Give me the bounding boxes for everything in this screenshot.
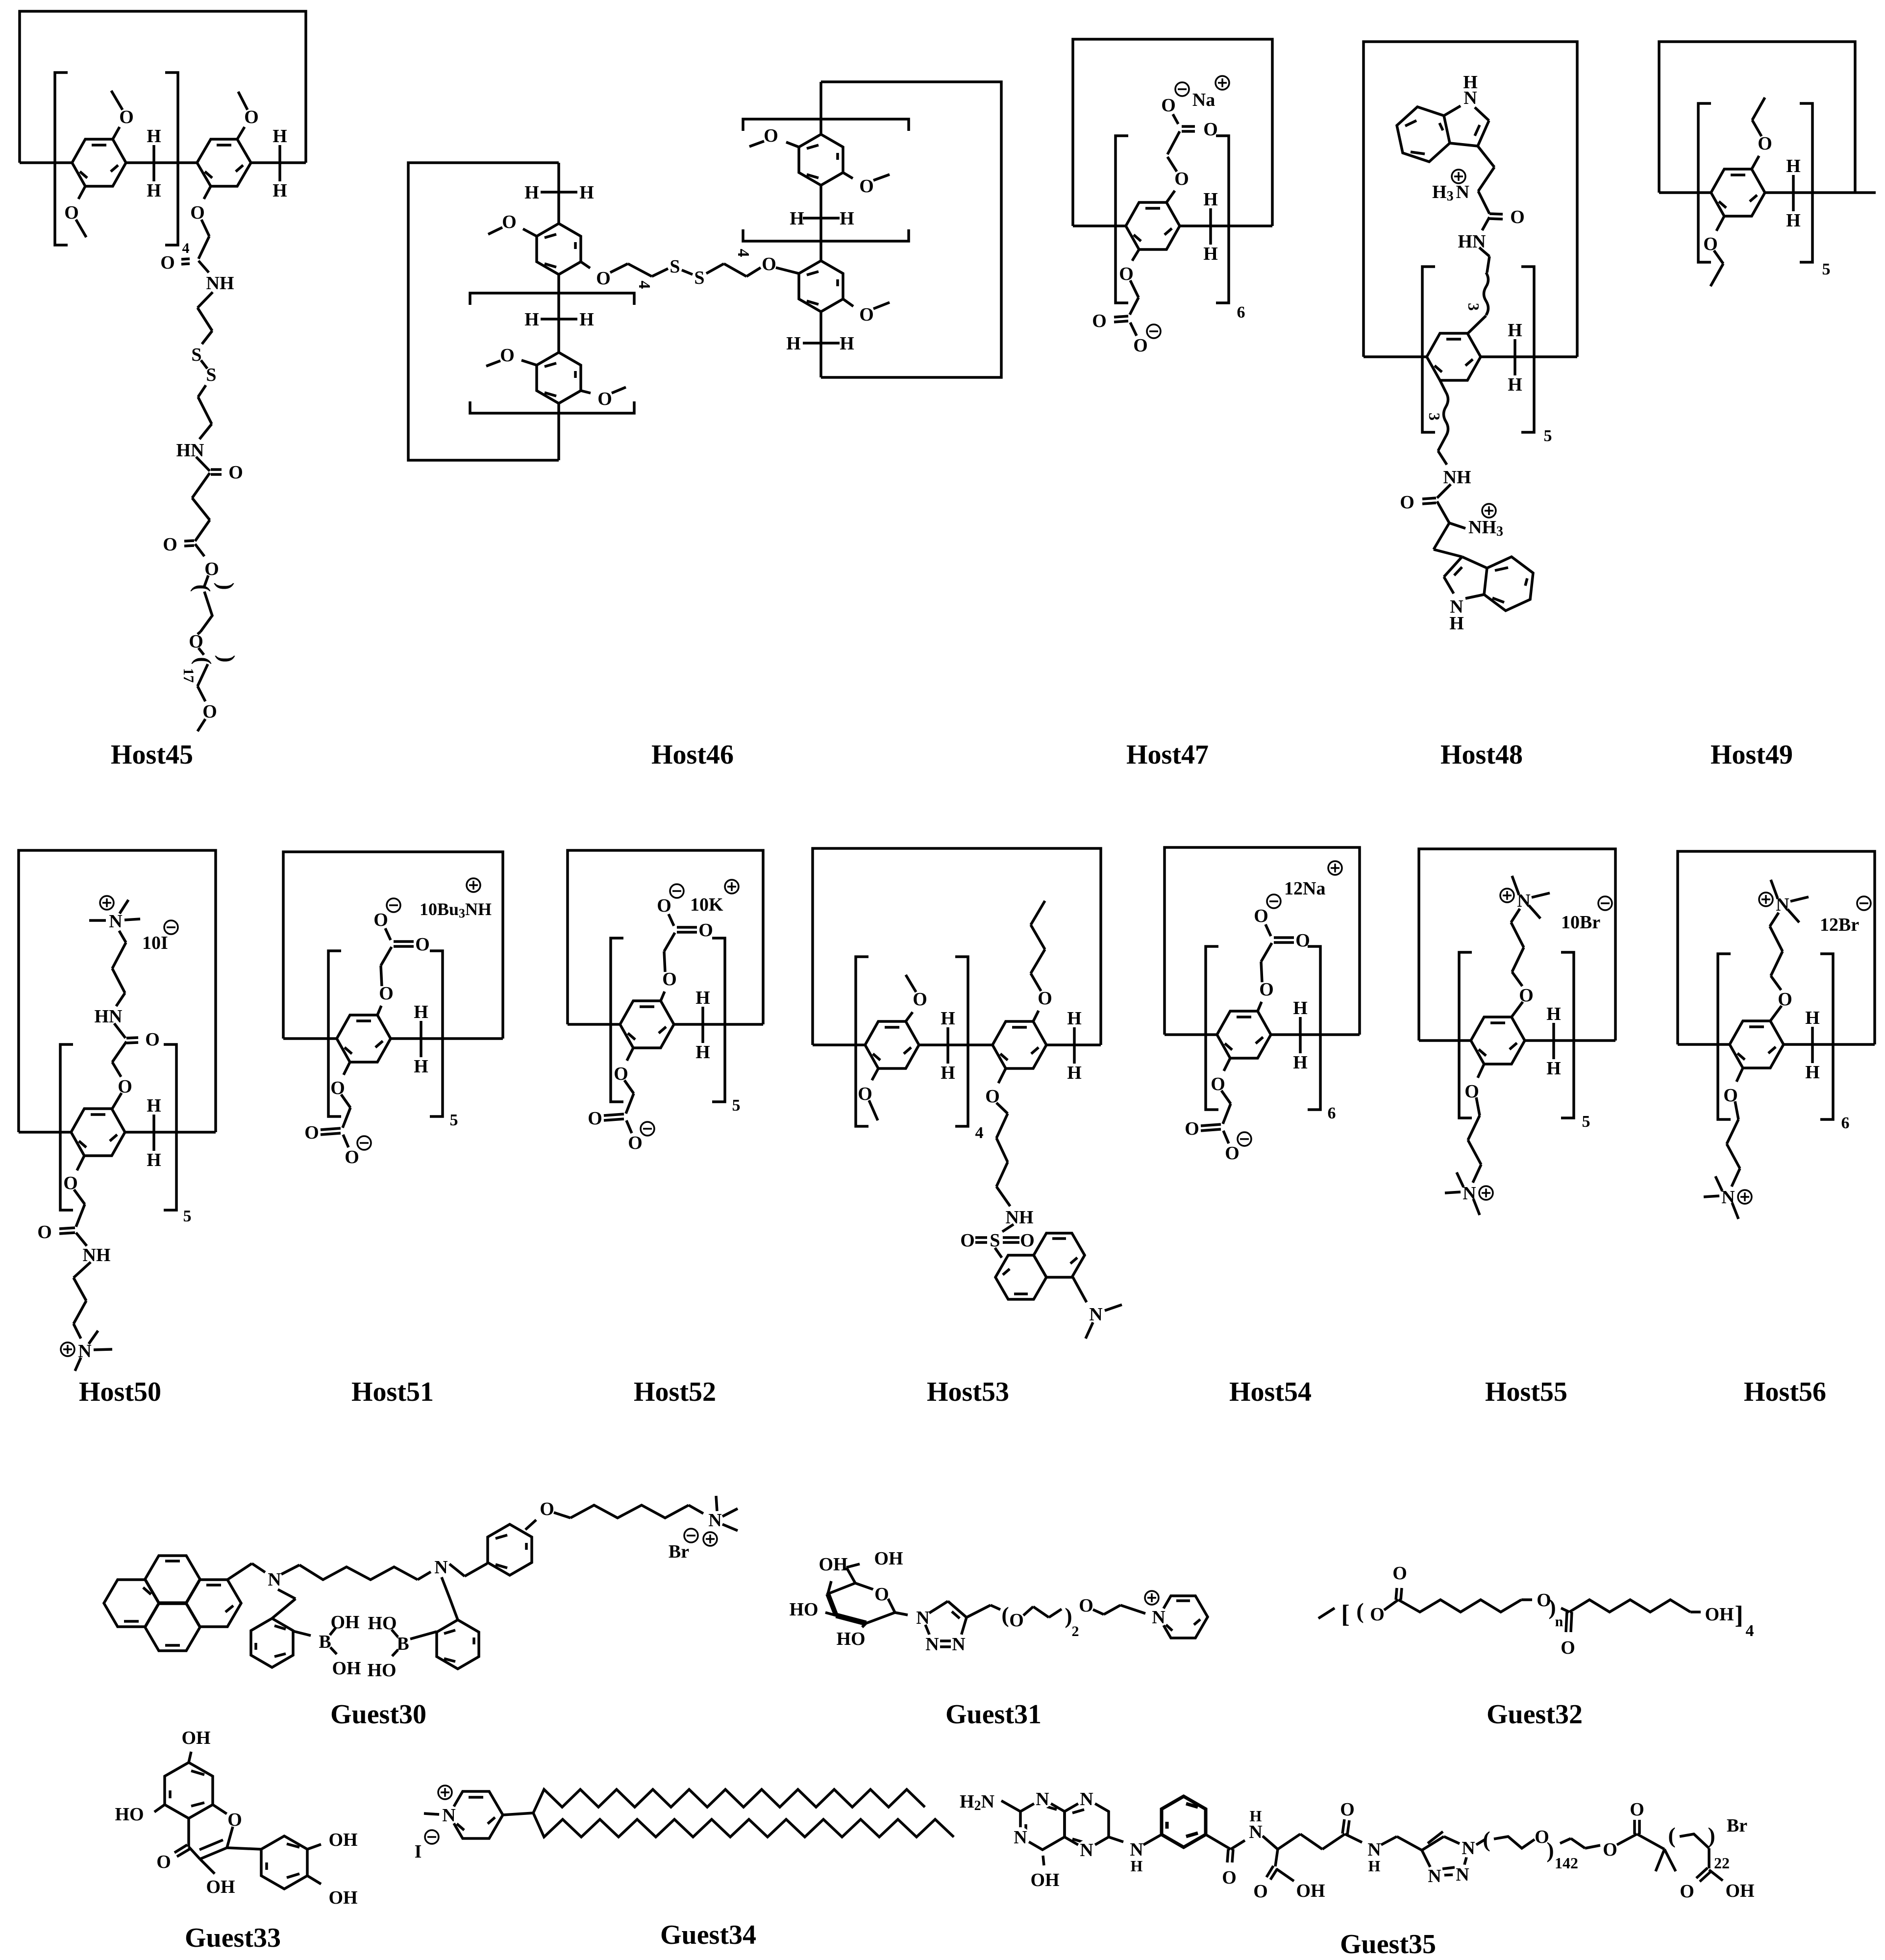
Guest35 H2N bbox=[960, 1791, 1020, 1813]
Host54 bottom carboxylate arm bbox=[1185, 1058, 1251, 1164]
Host45 repeat bracket bbox=[55, 73, 190, 256]
svg-text:Host47: Host47 bbox=[1126, 740, 1209, 770]
Host45 PEG chain bbox=[180, 575, 240, 731]
Guest32 second ester bbox=[1561, 1600, 1701, 1658]
svg-text:5: 5 bbox=[1582, 1113, 1590, 1131]
Host46 right brackets bbox=[734, 119, 909, 257]
svg-text:Guest32: Guest32 bbox=[1487, 1699, 1583, 1730]
svg-text:H: H bbox=[147, 126, 161, 147]
Host46 structure group bbox=[408, 82, 1001, 770]
Host54 box bbox=[1165, 847, 1360, 1035]
svg-text:5: 5 bbox=[1822, 260, 1831, 278]
svg-text:H: H bbox=[1293, 1052, 1308, 1073]
Guest34 upper docosyl chain bbox=[533, 1789, 925, 1813]
Host45 macrocycle box bbox=[20, 11, 306, 163]
svg-text:H: H bbox=[1250, 1807, 1262, 1825]
Host52 box bbox=[568, 850, 763, 1024]
Host47 top carboxylate arm bbox=[1161, 76, 1229, 202]
svg-text:O: O bbox=[1603, 1839, 1617, 1860]
svg-text:S: S bbox=[191, 345, 201, 365]
Host53 equator wire bbox=[813, 1043, 1101, 1046]
svg-text:H: H bbox=[1508, 374, 1522, 395]
Host48 bottom chain bbox=[1400, 436, 1503, 557]
svg-text:O: O bbox=[764, 125, 778, 146]
Host54 benzene ring bbox=[1217, 1011, 1271, 1058]
svg-text:12Na: 12Na bbox=[1284, 878, 1325, 899]
svg-text:10K: 10K bbox=[690, 894, 723, 915]
svg-text:4: 4 bbox=[975, 1124, 984, 1142]
svg-text:H: H bbox=[1508, 320, 1522, 341]
svg-text:O: O bbox=[345, 1147, 359, 1167]
svg-text:OH: OH bbox=[328, 1830, 357, 1850]
svg-text:(: ( bbox=[191, 657, 216, 664]
svg-text:O: O bbox=[1174, 169, 1189, 189]
svg-text:N: N bbox=[1428, 1866, 1441, 1886]
Host46 right bridge 1 bbox=[790, 208, 854, 229]
Host50 box bbox=[19, 850, 216, 1132]
svg-text:H: H bbox=[695, 1042, 710, 1063]
Guest30 benzyl 2 bbox=[437, 1577, 479, 1669]
Host51 top carboxylate arm bbox=[373, 878, 492, 1015]
Guest35 arylamine NH bbox=[1109, 1835, 1162, 1875]
Host50 top chain bbox=[95, 931, 160, 1109]
Host45 ring2 OMe top bbox=[237, 92, 259, 139]
svg-text:O: O bbox=[859, 304, 874, 325]
svg-text:H: H bbox=[695, 988, 710, 1008]
svg-text:H: H bbox=[1786, 210, 1801, 231]
Host47 structure group bbox=[1073, 39, 1272, 770]
Host55 brackets bbox=[1459, 952, 1590, 1131]
svg-text:N: N bbox=[1152, 1607, 1165, 1628]
svg-text:OH: OH bbox=[874, 1548, 903, 1569]
svg-text:N: N bbox=[925, 1634, 939, 1655]
Guest30 anisole ring bbox=[449, 1524, 532, 1576]
Host48 top squiggle link bbox=[1465, 273, 1488, 334]
Host46 left ring B bbox=[537, 352, 581, 403]
Host51 label bbox=[351, 1377, 434, 1407]
Host53 dansyl sulfonamide bbox=[960, 1224, 1035, 1258]
svg-text:12Br: 12Br bbox=[1820, 915, 1859, 935]
svg-text:O: O bbox=[960, 1230, 975, 1251]
svg-text:H: H bbox=[1368, 1857, 1381, 1875]
svg-text:O: O bbox=[1680, 1881, 1694, 1902]
Host46 ring A OMe bbox=[488, 212, 537, 236]
svg-text:Host53: Host53 bbox=[927, 1377, 1009, 1407]
svg-text:142: 142 bbox=[1555, 1854, 1578, 1872]
svg-text:O: O bbox=[227, 1810, 242, 1830]
svg-text:O: O bbox=[662, 969, 677, 990]
Host56 label bbox=[1744, 1377, 1826, 1407]
svg-text:(: ( bbox=[190, 584, 215, 592]
Guest33 ring B OH 1 bbox=[307, 1830, 358, 1850]
Host48 methylene bridge bbox=[1508, 320, 1522, 395]
svg-text:n: n bbox=[1555, 1613, 1563, 1630]
svg-text:N: N bbox=[434, 1557, 447, 1578]
svg-text:H: H bbox=[840, 208, 854, 229]
Host55 bottom ammonium bbox=[1445, 1064, 1493, 1215]
svg-text:H: H bbox=[790, 208, 804, 229]
svg-text:H: H bbox=[941, 1063, 955, 1083]
Host52 benzene ring bbox=[620, 1001, 674, 1048]
svg-text:O: O bbox=[588, 1108, 602, 1129]
Host56 structure group bbox=[1678, 851, 1875, 1407]
svg-text:I: I bbox=[415, 1841, 422, 1862]
svg-text:H: H bbox=[1449, 613, 1464, 634]
Host51 brackets bbox=[328, 951, 458, 1129]
svg-text:HO: HO bbox=[115, 1804, 144, 1825]
Host55 methylene bridge bbox=[1546, 1004, 1561, 1079]
Guest35 pteridine bbox=[1011, 1789, 1109, 1861]
svg-text:O: O bbox=[1400, 492, 1414, 513]
Host48 structure group bbox=[1364, 42, 1577, 770]
Host46 left box bbox=[408, 163, 559, 460]
Host46 label bbox=[651, 740, 734, 770]
Host52 label bbox=[634, 1377, 716, 1407]
svg-text:NH: NH bbox=[206, 273, 234, 294]
Guest31 triazole bbox=[895, 1601, 968, 1655]
Host56 benzene ring bbox=[1730, 1021, 1784, 1068]
svg-text:O: O bbox=[1020, 1230, 1035, 1251]
Guest30 ether O bbox=[525, 1499, 554, 1530]
Guest35 glutamate chain bbox=[1278, 1799, 1422, 1875]
svg-text:O: O bbox=[500, 345, 515, 366]
svg-text:H: H bbox=[1463, 72, 1478, 93]
svg-text:H: H bbox=[941, 1008, 955, 1029]
svg-text:O: O bbox=[502, 212, 517, 232]
svg-text:N: N bbox=[1080, 1789, 1093, 1810]
svg-text:NH: NH bbox=[1006, 1207, 1034, 1228]
Host48 bottom squiggle link bbox=[1426, 380, 1448, 436]
svg-text:NH: NH bbox=[1443, 467, 1471, 488]
Guest35 PEG bbox=[1476, 1827, 1617, 1872]
Host56 brackets bbox=[1718, 954, 1850, 1132]
svg-text:OH: OH bbox=[328, 1887, 357, 1908]
svg-text:O: O bbox=[859, 176, 874, 197]
Host45 label bbox=[111, 740, 193, 770]
svg-text:Host45: Host45 bbox=[111, 740, 193, 770]
svg-text:N: N bbox=[1080, 1840, 1093, 1861]
Guest34 structure group bbox=[415, 1786, 954, 1950]
Host53 ring2 O-butyl bbox=[1031, 901, 1052, 1021]
Guest33 label bbox=[185, 1923, 281, 1953]
svg-text:O: O bbox=[1092, 311, 1107, 331]
Host48 top amino acid chain bbox=[1432, 146, 1525, 273]
svg-text:(: ( bbox=[1001, 1602, 1009, 1627]
svg-text:O: O bbox=[1340, 1799, 1355, 1820]
svg-text:H: H bbox=[786, 333, 801, 354]
Guest32 label bbox=[1487, 1699, 1583, 1730]
Host50 label bbox=[79, 1377, 161, 1407]
svg-text:N: N bbox=[1036, 1789, 1049, 1810]
Host45 ester bbox=[163, 534, 219, 579]
Host47 brackets bbox=[1116, 136, 1245, 322]
svg-text:4: 4 bbox=[635, 281, 653, 289]
Host49 brackets bbox=[1698, 103, 1831, 278]
svg-text:O: O bbox=[228, 462, 243, 483]
Host54 methylene bridge bbox=[1293, 998, 1308, 1073]
svg-text:O: O bbox=[379, 983, 394, 1004]
Guest31 pyridinium bbox=[1145, 1591, 1208, 1638]
svg-text:H: H bbox=[147, 1095, 161, 1116]
svg-text:N: N bbox=[708, 1510, 721, 1531]
svg-text:O: O bbox=[415, 934, 430, 955]
Host54 equator wire bbox=[1165, 1033, 1360, 1036]
svg-text:O: O bbox=[1225, 1143, 1240, 1164]
Host48 benzene ring bbox=[1427, 333, 1481, 380]
svg-text:O: O bbox=[1222, 1867, 1237, 1888]
svg-text:HO: HO bbox=[836, 1629, 865, 1649]
Host51 methylene bridge bbox=[414, 1002, 428, 1077]
Guest33 HO left bbox=[115, 1804, 165, 1825]
svg-text:Guest31: Guest31 bbox=[945, 1699, 1042, 1730]
svg-text:Guest34: Guest34 bbox=[660, 1920, 756, 1950]
Guest30 hexyl chain 2 bbox=[554, 1505, 703, 1518]
svg-text:N: N bbox=[1014, 1827, 1027, 1848]
svg-text:N: N bbox=[952, 1634, 965, 1655]
svg-text:O: O bbox=[540, 1499, 554, 1519]
Host45 ring1 OMe bottom bbox=[64, 186, 86, 237]
svg-text:H: H bbox=[1131, 1857, 1143, 1875]
Guest31 label bbox=[945, 1699, 1042, 1730]
svg-text:O: O bbox=[304, 1122, 319, 1143]
Host53 ring2 O-chain bbox=[985, 1068, 1033, 1228]
svg-text:H: H bbox=[1546, 1004, 1561, 1024]
Host56 top ammonium bbox=[1759, 880, 1871, 1021]
Host56 bottom ammonium bbox=[1704, 1068, 1752, 1219]
Host46 ring B OMe 2 bbox=[581, 387, 626, 409]
Host49 OEt bottom bbox=[1703, 216, 1724, 286]
svg-text:H: H bbox=[1067, 1008, 1082, 1029]
svg-text:OH: OH bbox=[818, 1554, 847, 1575]
svg-text:H: H bbox=[1067, 1063, 1082, 1083]
svg-text:O: O bbox=[762, 254, 776, 274]
Host45 ring2 O-chain bbox=[190, 186, 211, 223]
Host54 brackets bbox=[1206, 946, 1336, 1122]
Host52 bottom carboxylate arm bbox=[588, 1048, 654, 1153]
Host46 disulfide linker bbox=[581, 254, 799, 289]
Host52 top carboxylate arm bbox=[657, 880, 739, 1001]
Host47 box bbox=[1073, 39, 1272, 226]
Guest35 amide 1 bbox=[1206, 1807, 1278, 1888]
Host46 right ring D bbox=[799, 261, 843, 312]
svg-text:5: 5 bbox=[1544, 427, 1552, 445]
Host55 equator wire bbox=[1419, 1039, 1615, 1042]
Host53 naphthalene bbox=[995, 1233, 1085, 1299]
Host55 benzene ring bbox=[1471, 1017, 1525, 1064]
svg-text:OH: OH bbox=[1725, 1881, 1754, 1901]
Host45 methylene bridge 2 bbox=[273, 126, 287, 201]
Host46 ring C OMe 2 bbox=[843, 173, 890, 197]
Guest30 structure group bbox=[104, 1496, 738, 1730]
svg-text:5: 5 bbox=[732, 1096, 741, 1115]
svg-text:O: O bbox=[1253, 1881, 1268, 1902]
Host49 box bbox=[1659, 42, 1855, 193]
svg-text:H: H bbox=[1805, 1062, 1820, 1083]
Host50 benzene ring bbox=[71, 1109, 125, 1156]
svg-text:6: 6 bbox=[1841, 1114, 1850, 1132]
Host48 top indole benzene bbox=[1397, 107, 1450, 162]
svg-text:HN: HN bbox=[176, 440, 204, 461]
svg-text:H: H bbox=[414, 1002, 428, 1022]
svg-text:5: 5 bbox=[450, 1111, 458, 1129]
svg-text:H: H bbox=[273, 180, 287, 201]
Host56 equator wire bbox=[1678, 1043, 1875, 1046]
svg-text:O: O bbox=[145, 1029, 160, 1050]
Host56 box bbox=[1678, 851, 1875, 1044]
Host53 label bbox=[927, 1377, 1009, 1407]
Host53 ring1 OMe bottom bbox=[858, 1068, 878, 1120]
svg-text:O: O bbox=[1009, 1610, 1024, 1631]
Guest30 boronic acid 2 bbox=[367, 1613, 437, 1681]
Host45 amide chain bbox=[160, 220, 234, 344]
Host53 methylene bridge 2 bbox=[1067, 1008, 1082, 1083]
svg-text:O: O bbox=[373, 910, 388, 930]
svg-text:Na: Na bbox=[1192, 90, 1215, 110]
Host51 benzene ring bbox=[337, 1015, 391, 1062]
Guest35 ester bbox=[1617, 1799, 1664, 1849]
svg-text:): ) bbox=[215, 655, 240, 662]
Host48 bottom indole bbox=[1444, 557, 1533, 634]
svg-text:H: H bbox=[579, 182, 594, 203]
svg-text:4: 4 bbox=[182, 240, 190, 256]
Host45 ring1 OMe top bbox=[111, 91, 134, 139]
svg-text:OH: OH bbox=[181, 1728, 210, 1748]
svg-text:Host51: Host51 bbox=[351, 1377, 434, 1407]
Guest31 PEG chain bbox=[967, 1595, 1145, 1639]
Guest34 pyridinium bbox=[415, 1786, 503, 1862]
Host53 structure group bbox=[813, 848, 1122, 1407]
svg-text:): ) bbox=[1065, 1603, 1072, 1628]
Host50 equator wire bbox=[19, 1131, 216, 1134]
Host53 methylene bridge 1 bbox=[941, 1008, 955, 1083]
svg-text:): ) bbox=[214, 582, 239, 590]
svg-text:O: O bbox=[657, 895, 671, 916]
svg-text:]: ] bbox=[1735, 1601, 1743, 1629]
svg-text:H: H bbox=[147, 180, 161, 201]
Host49 label bbox=[1711, 740, 1793, 770]
svg-text:6: 6 bbox=[1328, 1104, 1336, 1122]
svg-text:O: O bbox=[1079, 1595, 1093, 1616]
svg-text:O: O bbox=[1510, 207, 1525, 227]
Host50 bottom chain bbox=[37, 1156, 110, 1339]
Guest35 triazole bbox=[1422, 1832, 1478, 1886]
Host47 equator wire bbox=[1073, 224, 1272, 227]
svg-text:N: N bbox=[1089, 1304, 1102, 1325]
svg-text:O: O bbox=[189, 631, 203, 652]
svg-text:OH: OH bbox=[1030, 1870, 1059, 1890]
Guest32 first ester bbox=[1384, 1563, 1532, 1612]
Host45 benzene ring 1 bbox=[72, 139, 126, 186]
Host55 box bbox=[1419, 849, 1615, 1041]
Host53 benzene ring 1 bbox=[865, 1021, 919, 1068]
Host45 structure group bbox=[20, 11, 306, 770]
Host46 ring B OMe bbox=[486, 345, 537, 366]
Host50 bottom ammonium bbox=[61, 1331, 112, 1371]
svg-text:O: O bbox=[1259, 979, 1274, 1000]
Host45 disulfide bbox=[191, 345, 216, 439]
Host53 dimethylamino bbox=[1073, 1277, 1122, 1339]
Guest30 amine N1 bbox=[268, 1569, 281, 1590]
Host50 methylene bridge bbox=[147, 1095, 161, 1170]
svg-text:HN: HN bbox=[95, 1006, 123, 1027]
svg-text:O: O bbox=[1161, 95, 1176, 116]
svg-text:Guest30: Guest30 bbox=[330, 1699, 426, 1730]
Guest33 ring B OH 2 bbox=[307, 1876, 358, 1908]
Host47 bottom carboxylate arm bbox=[1092, 249, 1161, 356]
svg-text:Guest33: Guest33 bbox=[185, 1923, 281, 1953]
Guest32 terminal OH bbox=[1705, 1601, 1754, 1640]
svg-text:O: O bbox=[874, 1584, 889, 1605]
svg-text:O: O bbox=[1254, 906, 1268, 926]
svg-text:O: O bbox=[698, 920, 713, 941]
svg-text:): ) bbox=[1546, 1837, 1554, 1862]
svg-text:Host49: Host49 bbox=[1711, 740, 1793, 770]
svg-text:[: [ bbox=[1341, 1600, 1349, 1628]
svg-text:H: H bbox=[1203, 244, 1218, 264]
svg-text:O: O bbox=[1203, 119, 1218, 140]
Host50 structure group bbox=[19, 850, 216, 1407]
Guest30 boronic acid 1 bbox=[293, 1612, 361, 1679]
svg-text:Host56: Host56 bbox=[1744, 1377, 1826, 1407]
Host50 brackets bbox=[60, 1044, 192, 1225]
Guest30 pyrene bbox=[104, 1556, 241, 1651]
svg-text:HO: HO bbox=[368, 1613, 397, 1634]
svg-text:22: 22 bbox=[1714, 1854, 1730, 1872]
svg-text:(: ( bbox=[1356, 1598, 1364, 1623]
svg-text:S: S bbox=[670, 256, 680, 277]
svg-text:O: O bbox=[1392, 1563, 1407, 1584]
svg-text:S: S bbox=[206, 365, 216, 385]
svg-text:Guest35: Guest35 bbox=[1340, 1929, 1436, 1960]
Host45 amide 2 bbox=[176, 440, 243, 541]
Host56 methylene bridge bbox=[1805, 1008, 1820, 1083]
svg-text:O: O bbox=[597, 389, 612, 409]
Guest30 amine N2 bbox=[434, 1557, 447, 1578]
svg-text:3: 3 bbox=[1426, 413, 1443, 421]
svg-text:N: N bbox=[916, 1608, 929, 1628]
Guest35 glutamate COOH bbox=[1253, 1849, 1325, 1902]
svg-text:HO: HO bbox=[789, 1599, 818, 1620]
svg-text:O: O bbox=[1758, 133, 1772, 154]
Host52 methylene bridge bbox=[695, 988, 710, 1063]
svg-text:N: N bbox=[109, 911, 122, 932]
svg-text:O: O bbox=[596, 268, 611, 289]
Host54 top carboxylate arm bbox=[1254, 861, 1342, 1011]
Host46 ring D OMe bbox=[843, 299, 890, 325]
svg-text:(: ( bbox=[1668, 1823, 1675, 1848]
Guest34 label bbox=[660, 1920, 756, 1950]
Host48 label bbox=[1440, 740, 1523, 770]
Guest30 benzyl 1 bbox=[251, 1589, 296, 1667]
Host53 box bbox=[813, 848, 1101, 1045]
svg-text:H: H bbox=[147, 1150, 161, 1170]
Guest33 ring B catechol bbox=[227, 1836, 307, 1889]
Host48 box bbox=[1364, 42, 1577, 357]
svg-text:H: H bbox=[579, 309, 594, 330]
svg-text:10Br: 10Br bbox=[1561, 912, 1600, 933]
Host55 top ammonium bbox=[1500, 876, 1612, 1017]
Host46 right axis wire bbox=[819, 82, 822, 377]
svg-text:N: N bbox=[1462, 1838, 1475, 1859]
svg-text:S: S bbox=[990, 1230, 1000, 1251]
svg-text:O: O bbox=[156, 1852, 171, 1872]
Host47 label bbox=[1126, 740, 1209, 770]
svg-text:): ) bbox=[1708, 1823, 1715, 1848]
Host48 brackets bbox=[1422, 267, 1552, 445]
Host48 equator wire bbox=[1364, 355, 1577, 358]
Host51 box bbox=[283, 852, 503, 1039]
Host46 right ring C bbox=[799, 134, 843, 185]
